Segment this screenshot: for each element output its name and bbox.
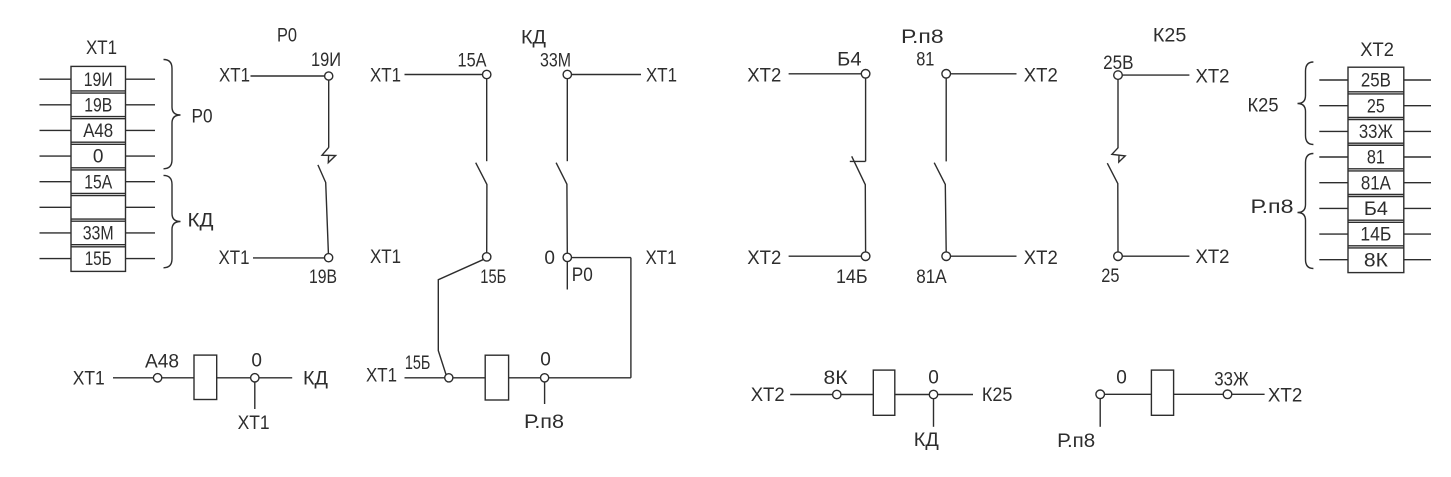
svg-text:К25: К25	[1153, 25, 1186, 46]
wire pin row 2 right stub	[126, 104, 156, 106]
svg-text:Р.п8: Р.п8	[1251, 197, 1294, 218]
wire 0 to coil	[1105, 393, 1152, 395]
wire pin 14Б left stub	[1319, 233, 1348, 235]
wire pin row 4 right stub	[126, 155, 156, 157]
wire XT2 to Б4	[789, 73, 862, 75]
wire pin row 3 left stub	[40, 129, 72, 131]
wire coil to node 0	[217, 377, 251, 379]
terminal circle А48	[153, 374, 161, 382]
svg-text:33М: 33М	[83, 224, 114, 245]
svg-text:К25: К25	[1248, 96, 1279, 117]
wire pin 8К left stub	[1319, 259, 1348, 261]
wire node down to XT1	[254, 382, 256, 409]
terminal circle 25	[1114, 252, 1123, 261]
svg-text:ХТ2: ХТ2	[751, 385, 785, 406]
wire 8К to coil	[841, 394, 873, 396]
brace group Р0 pins	[164, 60, 181, 169]
wire pin 33Ж left stub	[1319, 130, 1348, 132]
svg-text:19В: 19В	[309, 267, 337, 288]
terminal circle 0 (Р0 node)	[563, 253, 571, 261]
wire pin 81 right stub	[1404, 156, 1431, 158]
svg-text:ХТ2: ХТ2	[1196, 67, 1230, 88]
terminal circle 8К	[833, 390, 841, 398]
terminal circle 25В	[1114, 71, 1123, 80]
contact blade КД-2	[556, 163, 567, 253]
svg-text:ХТ2: ХТ2	[747, 248, 781, 269]
svg-text:ХТ2: ХТ2	[1360, 40, 1394, 61]
svg-text:15А: 15А	[84, 172, 112, 193]
wire pin row 3 right stub	[126, 129, 156, 131]
brace group К25 pins	[1298, 62, 1314, 145]
wire pin row 1 left stub	[40, 78, 72, 80]
wire pin 25 left stub	[1319, 105, 1348, 107]
wire 0 down to Р.п8	[1099, 399, 1101, 427]
svg-text:ХТ1: ХТ1	[370, 247, 401, 268]
svg-text:ХТ2: ХТ2	[1196, 247, 1230, 268]
wire node 0 stub down	[566, 262, 568, 290]
wire 15Б down to coil node	[438, 260, 483, 375]
svg-text:19И: 19И	[84, 70, 113, 91]
wire coil to node 0	[895, 394, 930, 396]
terminal circle 19В	[325, 254, 333, 262]
wire pin row 6 left stub	[40, 206, 72, 208]
wire 19В to XT1	[253, 257, 325, 259]
wire 25В to XT2	[1122, 74, 1189, 76]
relay coil (КД aux)	[485, 355, 508, 400]
svg-text:Р.п8: Р.п8	[1057, 431, 1095, 452]
wire XT1 to node 15Б	[405, 377, 445, 379]
wire XT1 to 15А	[405, 74, 483, 76]
svg-text:КД: КД	[188, 211, 214, 232]
svg-text:ХТ2: ХТ2	[747, 65, 781, 86]
wire 81 to XT2	[951, 73, 1017, 75]
contact blade Р.п8-2	[934, 163, 946, 252]
svg-text:ХТ1: ХТ1	[646, 66, 677, 87]
wire pin Б4 left stub	[1319, 207, 1348, 209]
svg-text:15Б: 15Б	[405, 353, 431, 374]
relay coil КД	[194, 355, 217, 399]
svg-text:25: 25	[1367, 96, 1385, 117]
wire node to coil	[453, 377, 485, 379]
wire contact upper	[566, 79, 568, 162]
wire pin 33Ж right stub	[1404, 130, 1431, 132]
svg-text:19В: 19В	[84, 95, 112, 116]
svg-text:81А: 81А	[1361, 173, 1391, 194]
wire node down to КД	[933, 399, 935, 427]
svg-text:14Б: 14Б	[1360, 225, 1391, 246]
wire node to К25 net	[938, 394, 973, 396]
wire contact upper	[865, 78, 867, 161]
wire pin row 8 right stub	[126, 258, 156, 260]
connector XT1	[71, 66, 126, 271]
contact seat bar	[850, 160, 866, 162]
wire 81А to XT2	[951, 255, 1017, 257]
svg-text:ХТ1: ХТ1	[238, 413, 270, 434]
wire pin row 5 left stub	[40, 181, 72, 183]
svg-text:КД: КД	[521, 28, 546, 49]
svg-text:33М: 33М	[540, 51, 571, 72]
relay coil К25	[873, 370, 895, 415]
svg-text:Б4: Б4	[1364, 199, 1388, 220]
svg-text:0: 0	[928, 367, 939, 388]
svg-text:81: 81	[916, 49, 934, 70]
wire pin 14Б right stub	[1404, 233, 1431, 235]
svg-text:ХТ2: ХТ2	[1024, 65, 1058, 86]
svg-text:Р.п8: Р.п8	[524, 412, 564, 433]
contact blade КД-1	[476, 163, 487, 253]
svg-text:25В: 25В	[1361, 71, 1391, 92]
wire pin row 2 left stub	[40, 104, 72, 106]
wire pin row 4 left stub	[40, 155, 72, 157]
svg-text:ХТ1: ХТ1	[73, 368, 105, 389]
node circle 0	[929, 390, 937, 398]
wire XT1 to А48	[113, 377, 153, 379]
svg-text:0: 0	[1116, 367, 1127, 388]
wire 33М to XT1	[572, 74, 641, 76]
contact blade Р.п8-1	[852, 156, 866, 252]
svg-text:А48: А48	[145, 352, 179, 373]
svg-text:А48: А48	[83, 121, 113, 142]
svg-text:8К: 8К	[824, 368, 848, 389]
terminal circle 15А	[483, 70, 491, 78]
svg-text:КД: КД	[914, 430, 939, 451]
svg-text:ХТ1: ХТ1	[366, 365, 397, 386]
connector XT2	[1348, 67, 1404, 272]
relay coil Р.п8	[1151, 370, 1173, 415]
wire contact upper	[945, 78, 947, 161]
wire pin row 7 right stub	[126, 232, 156, 234]
brace group Р.п8 pins	[1298, 154, 1314, 269]
svg-text:ХТ1: ХТ1	[370, 66, 401, 87]
svg-text:0: 0	[93, 147, 104, 168]
wire pin row 7 left stub	[40, 232, 72, 234]
svg-text:Р.п8: Р.п8	[901, 27, 944, 48]
brace group КД pins	[164, 175, 181, 267]
svg-text:8К: 8К	[1364, 250, 1388, 271]
wire pin 81 left stub	[1319, 156, 1348, 158]
wire pin 25 right stub	[1404, 105, 1431, 107]
svg-text:КД: КД	[303, 368, 328, 389]
svg-text:0: 0	[251, 350, 262, 371]
wire 25 to XT2	[1122, 255, 1189, 257]
terminal circle 14Б	[861, 252, 870, 261]
svg-text:Р0: Р0	[192, 107, 213, 128]
svg-text:81: 81	[1367, 148, 1385, 169]
svg-text:К25: К25	[982, 385, 1013, 406]
svg-text:Р0: Р0	[572, 265, 593, 286]
node circle 0	[251, 374, 259, 382]
wire coil to 33Ж	[1174, 393, 1224, 395]
svg-text:81А: 81А	[916, 267, 947, 288]
wire pin 8К right stub	[1404, 259, 1431, 261]
terminal circle 0 (Р.п8 input)	[1096, 390, 1105, 399]
svg-text:0: 0	[540, 349, 551, 370]
wire pin row 8 left stub	[40, 258, 72, 260]
wire А48 to coil	[162, 377, 194, 379]
svg-text:33Ж: 33Ж	[1359, 122, 1393, 143]
svg-text:ХТ1: ХТ1	[219, 248, 250, 269]
wire pin 81А right stub	[1404, 182, 1431, 184]
svg-text:14Б: 14Б	[836, 267, 868, 288]
wire node 0 to corner	[549, 377, 631, 379]
wire 33Ж to XT2	[1232, 393, 1265, 395]
svg-text:Р0: Р0	[277, 26, 297, 47]
wire pin row 6 right stub	[126, 206, 156, 208]
wire node down Р.п8	[544, 382, 546, 404]
svg-text:ХТ2: ХТ2	[1024, 248, 1058, 269]
svg-text:25: 25	[1101, 266, 1119, 287]
wire pin Б4 right stub	[1404, 207, 1431, 209]
terminal circle 81А	[942, 252, 951, 261]
terminal circle 33Ж	[1223, 390, 1232, 399]
svg-text:15А: 15А	[458, 51, 487, 72]
svg-text:0: 0	[544, 248, 555, 269]
node circle 0	[541, 374, 549, 382]
breaker arrow (lightning)	[1112, 148, 1125, 162]
svg-text:Б4: Б4	[837, 49, 862, 70]
wire XT1 to 19И	[251, 75, 325, 77]
terminal circle 15Б	[483, 253, 491, 261]
wire XT2 to 8К	[790, 394, 832, 396]
wire 0 to XT1 corner	[572, 257, 631, 259]
wire contact upper	[486, 79, 488, 162]
svg-text:15Б: 15Б	[480, 267, 506, 288]
wire pin 81А left stub	[1319, 182, 1348, 184]
wire 14Б to XT2	[789, 255, 862, 257]
terminal circle 33М	[563, 70, 571, 78]
terminal circle 81	[942, 70, 951, 79]
terminal circle Б4	[861, 70, 870, 79]
wire pin row 1 right stub	[126, 78, 156, 80]
svg-text:15Б: 15Б	[85, 249, 112, 270]
wire coil to node 0	[509, 377, 541, 379]
svg-text:ХТ1: ХТ1	[646, 248, 677, 269]
wire node to КД net	[259, 377, 292, 379]
wire contact upper	[328, 80, 330, 147]
breaker arrow (lightning)	[322, 147, 336, 162]
wire pin row 5 right stub	[126, 181, 156, 183]
wire pin 25В right stub	[1404, 79, 1431, 81]
contact blade К25	[1107, 163, 1118, 252]
wire corner down to coil output	[630, 258, 632, 378]
node circle 15Б	[445, 374, 453, 382]
terminal circle 19И	[325, 72, 333, 80]
contact blade Р0	[318, 165, 329, 253]
wire pin 25В left stub	[1319, 79, 1348, 81]
svg-text:ХТ1: ХТ1	[86, 38, 117, 59]
svg-text:19И: 19И	[311, 50, 341, 71]
svg-text:33Ж: 33Ж	[1214, 370, 1249, 391]
svg-text:ХТ1: ХТ1	[219, 66, 250, 87]
wire contact upper	[1117, 79, 1119, 148]
svg-text:ХТ2: ХТ2	[1268, 386, 1302, 407]
